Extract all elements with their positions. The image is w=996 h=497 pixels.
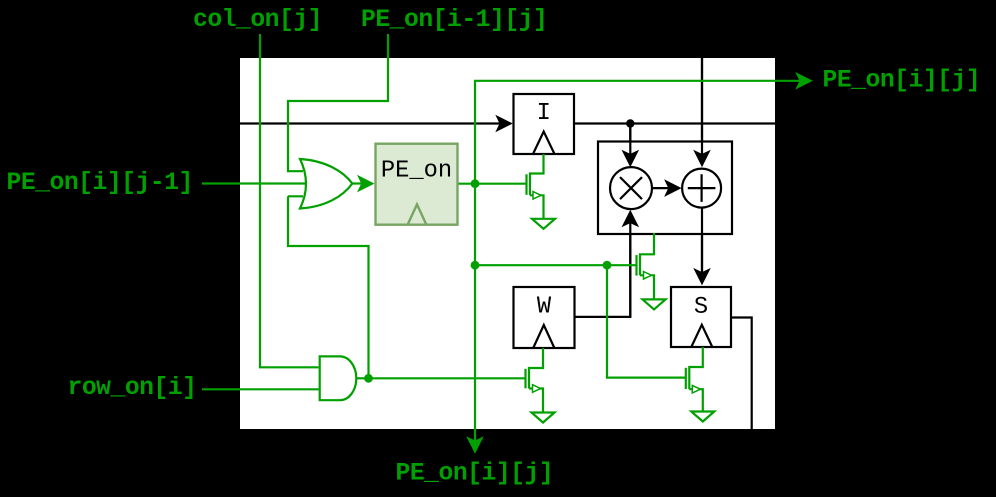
svg-text:col_on[j]: col_on[j] [193, 6, 322, 34]
svg-text:row_on[i]: row_on[i] [68, 374, 197, 402]
svg-text:S: S [694, 294, 708, 321]
svg-text:I: I [537, 100, 551, 127]
svg-text:PE_on[i-1][j]: PE_on[i-1][j] [361, 6, 547, 34]
svg-text:PE_on: PE_on [381, 158, 452, 185]
svg-text:PE_on[i][j-1]: PE_on[i][j-1] [7, 169, 193, 197]
svg-text:W: W [537, 294, 552, 321]
svg-text:PE_on[i][j]: PE_on[i][j] [396, 460, 554, 488]
svg-text:PE_on[i][j]: PE_on[i][j] [823, 67, 981, 95]
